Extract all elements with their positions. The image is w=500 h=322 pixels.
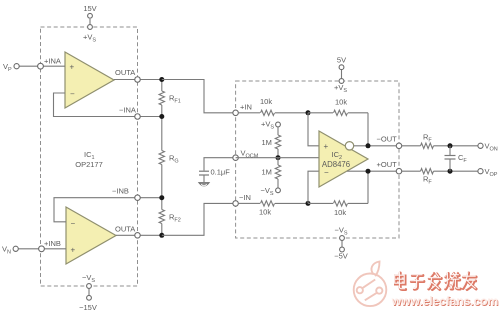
svg-text:+INB: +INB <box>44 239 61 248</box>
svg-text:+: + <box>324 142 329 151</box>
svg-text:RF: RF <box>423 133 432 144</box>
svg-text:1M: 1M <box>262 138 272 147</box>
svg-text:−5V: −5V <box>334 252 348 261</box>
svg-text:−: − <box>324 168 329 177</box>
svg-text:−VS: −VS <box>82 273 95 284</box>
svg-text:RF1: RF1 <box>169 94 181 105</box>
svg-text:OUTA: OUTA <box>115 68 135 77</box>
svg-text:+: + <box>70 63 75 72</box>
svg-text:+: + <box>71 246 76 255</box>
svg-text:−OUT: −OUT <box>377 135 398 144</box>
svg-text:CF: CF <box>458 153 467 164</box>
svg-text:−VS: −VS <box>261 186 274 197</box>
svg-text:−VS: −VS <box>335 226 348 237</box>
svg-text:OUTA: OUTA <box>115 225 135 234</box>
svg-text:−INA: −INA <box>119 106 136 115</box>
svg-text:OP2177: OP2177 <box>75 160 103 169</box>
svg-text:10k: 10k <box>259 208 271 217</box>
svg-text:+INA: +INA <box>44 57 61 66</box>
svg-text:+OUT: +OUT <box>377 160 398 169</box>
svg-text:−15V: −15V <box>79 303 97 312</box>
svg-text:VP: VP <box>3 62 12 73</box>
svg-text:VOP: VOP <box>485 167 498 178</box>
svg-text:+VS: +VS <box>83 33 96 44</box>
svg-text:+VS: +VS <box>261 120 274 131</box>
svg-text:1M: 1M <box>262 168 272 177</box>
svg-text:VON: VON <box>485 142 498 153</box>
svg-text:AD8476: AD8476 <box>322 160 350 169</box>
svg-text:10k: 10k <box>334 208 346 217</box>
svg-text:15V: 15V <box>83 4 96 13</box>
svg-text:RF: RF <box>423 175 432 186</box>
svg-text:−INB: −INB <box>112 187 129 196</box>
svg-text:5V: 5V <box>337 56 346 65</box>
svg-text:+IN: +IN <box>240 103 252 112</box>
svg-text:www.elecfans.com: www.elecfans.com <box>391 294 499 308</box>
svg-text:−: − <box>71 219 76 228</box>
svg-text:0.1μF: 0.1μF <box>211 168 231 177</box>
svg-text:VN: VN <box>2 245 11 256</box>
svg-text:RF2: RF2 <box>169 213 181 224</box>
svg-text:RG: RG <box>169 154 179 165</box>
svg-text:10k: 10k <box>260 97 272 106</box>
svg-text:−IN: −IN <box>239 193 251 202</box>
svg-text:10k: 10k <box>335 98 347 107</box>
svg-text:−: − <box>70 90 75 99</box>
svg-text:+VS: +VS <box>334 83 347 94</box>
